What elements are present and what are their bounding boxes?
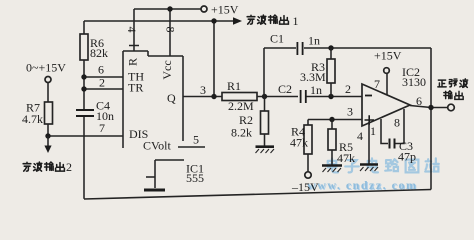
node R5 top <box>329 117 334 122</box>
svg-text:3130: 3130 <box>402 75 426 89</box>
wire R7 to DIS node <box>47 124 49 136</box>
ground R5 <box>322 164 342 167</box>
svg-text:47k: 47k <box>337 151 355 165</box>
svg-text:8: 8 <box>394 116 400 130</box>
svg-text:2.2M: 2.2M <box>228 99 254 113</box>
svg-text:0~+15V: 0~+15V <box>26 61 66 75</box>
svg-text:4: 4 <box>357 129 363 143</box>
svg-text:3.3M: 3.3M <box>300 70 326 84</box>
wire +15V top rail <box>134 8 201 10</box>
svg-text:6: 6 <box>416 94 422 108</box>
svg-text:47p: 47p <box>398 150 416 164</box>
svg-text:4.7k: 4.7k <box>22 112 43 126</box>
resistor R6 <box>80 34 88 60</box>
op-amp U2 triangle <box>362 84 410 126</box>
wire DIS pin 7 <box>48 135 123 137</box>
label 输出 <box>444 91 463 100</box>
svg-text:R1: R1 <box>227 79 241 93</box>
node R3 top <box>328 45 333 50</box>
svg-text:8: 8 <box>164 27 178 33</box>
wire pin 3 non-inverting <box>308 119 362 121</box>
wire 555 pin4 to +15V rail <box>129 9 139 51</box>
ground op-amp pin4 <box>360 163 378 166</box>
svg-text:+15V: +15V <box>211 3 239 17</box>
node pin3 <box>211 94 216 99</box>
555 pin 5 stub <box>178 146 205 148</box>
svg-text:1: 1 <box>370 124 376 138</box>
svg-text:1n: 1n <box>310 83 322 97</box>
svg-text:4: 4 <box>125 27 139 33</box>
terminal +15V <box>201 6 207 12</box>
svg-text:3: 3 <box>347 105 353 119</box>
label 方波输出 2 <box>23 162 64 171</box>
wire R6 column <box>83 21 85 110</box>
op-amp plus <box>365 115 375 124</box>
svg-text:C1: C1 <box>270 32 284 46</box>
svg-text:1n: 1n <box>308 34 320 48</box>
svg-text:10n: 10n <box>96 109 114 123</box>
svg-text:555: 555 <box>186 171 204 185</box>
svg-text:7: 7 <box>374 77 380 91</box>
ground R2 <box>256 145 275 148</box>
svg-text:2: 2 <box>345 82 351 96</box>
svg-text:2: 2 <box>66 160 72 174</box>
wire TH pin 6 <box>84 76 123 78</box>
capacitor C4 <box>76 110 94 116</box>
capacitor C1 <box>297 42 302 55</box>
svg-text:Vcc: Vcc <box>160 60 174 79</box>
label 方波输出 1 <box>247 15 288 24</box>
node DIS <box>45 133 50 138</box>
node output <box>428 105 433 110</box>
wire C1 to feedback corner <box>304 47 431 49</box>
svg-text:82k: 82k <box>90 46 108 60</box>
label 正弦波 <box>438 79 468 88</box>
node A <box>262 94 267 99</box>
arrow square-wave output 2 <box>47 136 49 146</box>
wire input terminal to R7 <box>47 83 49 103</box>
pin 8 lead <box>396 109 405 144</box>
svg-text:6: 6 <box>98 63 104 77</box>
pin 7 supply <box>386 74 388 96</box>
555 pin 1 ground <box>154 160 156 188</box>
wire pin 3 out <box>183 96 222 98</box>
wire R1 to node A <box>257 96 298 98</box>
resistor R7 <box>45 102 53 124</box>
wire right frame / feedback vertical <box>430 48 432 190</box>
IC1 555 box <box>123 51 184 160</box>
resistor R4 <box>307 120 309 172</box>
resistor R2 <box>264 97 266 147</box>
svg-text:47k: 47k <box>290 136 308 150</box>
capacitor C2 <box>301 90 306 103</box>
svg-text:5: 5 <box>193 133 199 147</box>
node dot Q line <box>211 18 216 23</box>
node R3 bottom <box>328 94 333 99</box>
wire C4 bottom to ground rail <box>83 116 85 199</box>
node TR <box>81 86 86 91</box>
svg-text:Q: Q <box>167 91 176 105</box>
wire pin 6 output <box>410 106 448 108</box>
resistor R1 <box>222 93 257 101</box>
terminal sine output <box>448 104 455 111</box>
resistor R5 <box>331 120 333 165</box>
node dot rail-pin8 <box>167 6 172 11</box>
svg-text:C2: C2 <box>278 82 292 96</box>
node TH <box>81 74 86 79</box>
svg-text:TR: TR <box>128 81 143 95</box>
wire 555 pin8 to +15V rail <box>169 9 171 56</box>
arrow square-wave output 1 <box>233 17 242 24</box>
svg-text:+15V: +15V <box>374 49 402 63</box>
op-amp minus <box>365 95 372 97</box>
watermark row 1: 电子电路图站 <box>328 158 439 172</box>
wire square-wave output 1 line <box>84 20 235 22</box>
pin 1 lead <box>381 119 388 144</box>
svg-text:8.2k: 8.2k <box>231 126 252 140</box>
wire TR pin 2 <box>84 88 123 90</box>
svg-text:2: 2 <box>99 76 105 90</box>
svg-text:CVolt: CVolt <box>143 139 171 153</box>
svg-text:–15V: –15V <box>291 180 319 194</box>
wire node A up to C1 <box>264 48 296 97</box>
svg-text:3: 3 <box>200 83 206 97</box>
resistor R3 <box>330 48 332 97</box>
svg-text:7: 7 <box>99 121 105 135</box>
wire C2 to pin2 <box>307 96 363 98</box>
svg-text:1: 1 <box>293 14 299 28</box>
wire bottom rail <box>84 190 431 200</box>
terminal -15V <box>305 172 311 178</box>
capacitor C3 <box>390 139 395 149</box>
wire node Q vertical <box>213 21 215 97</box>
pin 4 to ground <box>368 122 370 164</box>
svg-text:R: R <box>125 58 139 66</box>
